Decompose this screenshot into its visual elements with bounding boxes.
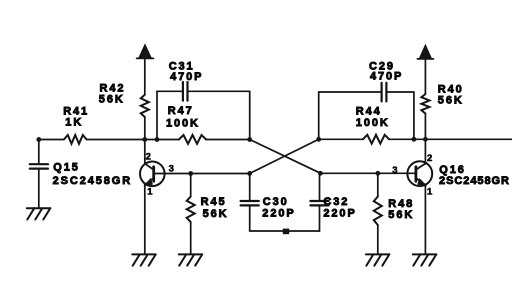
junction node B top left of cross (247, 137, 252, 142)
wire: R45 to ground (190, 222, 192, 254)
label R44 value 100K (356, 105, 390, 129)
junction node top right of cross (316, 137, 321, 142)
junction node: R40 branch at rail (423, 137, 428, 142)
wire: C31 loop top right segment (188, 90, 249, 92)
capacitor C29 (382, 83, 387, 102)
wire: Q15 emitter to ground (144, 185, 146, 254)
resistor R40 (421, 94, 429, 114)
ground (Q15 emitter) (132, 254, 156, 265)
resistor R41 (64, 135, 87, 144)
capacitor (input, left) (30, 164, 48, 168)
wire: R48 to ground (377, 225, 379, 254)
resistor R47 (179, 135, 206, 144)
junction node: rail left end (36, 137, 41, 142)
ground (R45) (179, 254, 203, 265)
label R41 value 1K (63, 106, 89, 129)
svg-text:2SC2458GR: 2SC2458GR (53, 175, 132, 187)
wire: C29 loop top left segment (319, 91, 381, 93)
wire: R40 bottom to top rail (424, 114, 426, 140)
svg-text:100K: 100K (356, 117, 390, 129)
label Q16 2SC2458GR (439, 164, 510, 187)
junction node: R48 tap (375, 171, 380, 176)
resistor R44 (363, 135, 389, 144)
power symbol B+ left (arrow) (137, 45, 154, 59)
wire: Q16 base rail from cross node (320, 172, 407, 174)
label R45 value 56K (201, 196, 229, 220)
svg-text:R40: R40 (438, 84, 464, 96)
svg-text:R44: R44 (356, 105, 382, 117)
wire: left input cap vertical from rail (38, 140, 40, 164)
resistor R48 (374, 197, 382, 226)
wire: C30 bottom vertical (249, 206, 251, 231)
resistor R42 (141, 95, 149, 117)
svg-text:C30: C30 (263, 196, 289, 208)
junction node: C29 loop right at rail (412, 137, 417, 142)
junction node: Q16 base rail at cross (318, 171, 323, 176)
wire: C29 loop top right segment (387, 91, 414, 93)
label R47 value 100K (166, 105, 200, 129)
wire: C29 loop right vertical down to rail (413, 92, 415, 139)
wire: C31 loop right vertical down to node B (249, 91, 251, 139)
svg-text:C32: C32 (323, 196, 349, 208)
svg-text:100K: 100K (166, 117, 200, 129)
svg-text:56K: 56K (388, 209, 414, 221)
svg-text:470P: 470P (170, 71, 203, 83)
svg-text:R45: R45 (201, 196, 227, 208)
svg-text:3: 3 (392, 165, 397, 176)
wire: C29 loop left vertical (318, 92, 320, 139)
svg-text:2SC2458GR: 2SC2458GR (439, 175, 510, 187)
capacitor C31 (183, 82, 188, 101)
svg-text:56K: 56K (203, 208, 229, 220)
ground (R48) (366, 254, 390, 265)
wire: right supply vertical from arrow to R40 (424, 59, 426, 94)
transistor Q16 (407, 139, 432, 186)
wire: left cap to ground (38, 170, 40, 208)
svg-text:56K: 56K (99, 93, 125, 105)
label R40 value 56K (438, 84, 464, 107)
wire: R42 bottom to top rail (144, 117, 146, 140)
wire: top rail left end to R41 (39, 139, 64, 141)
svg-text:220P: 220P (262, 208, 295, 220)
label Q15 2SC2458GR (53, 161, 132, 187)
junction node: Q15 base rail at cross (247, 171, 252, 176)
label C32 value 220P (323, 196, 356, 220)
label C31 value 470P (169, 60, 204, 83)
wire: top rail right of R40 node to edge (414, 138, 512, 140)
svg-text:1: 1 (427, 187, 433, 198)
wire: C32 branch vertical top (319, 173, 321, 200)
wire: R41 to node collector Q15 (87, 139, 158, 141)
wire: cross coupling diagonal right rail node to Q15 base rail (250, 139, 319, 173)
svg-text:1K: 1K (65, 117, 83, 129)
wire: C31 loop top left segment (157, 90, 182, 92)
wire: R45 branch vertical (190, 174, 192, 197)
wire: cross coupling diagonal node B to Q16 base rail (250, 140, 321, 174)
svg-text:1: 1 (147, 187, 153, 198)
label R42 value 56K (99, 83, 126, 106)
svg-text:220P: 220P (323, 208, 356, 220)
ground (Q16 emitter) (413, 254, 437, 265)
wire: Q15 base rail to cross node (165, 173, 250, 175)
resistor R45 (187, 197, 195, 223)
wire: C32 bottom vertical (319, 206, 321, 231)
wire: R47 to node B (206, 139, 250, 141)
label C30 value 220P (262, 196, 295, 220)
label R48 value 56K (388, 198, 414, 221)
junction node: loop left at rail (155, 137, 160, 142)
transistor Q15 (140, 140, 165, 187)
power symbol B+ right (arrow) (417, 45, 433, 59)
junction node: R45 tap (188, 171, 193, 176)
svg-text:2: 2 (427, 153, 432, 164)
wire: C31 loop left vertical (156, 91, 158, 139)
label C29 value 470P (369, 60, 403, 82)
ground (far left) (27, 208, 51, 219)
svg-text:470P: 470P (370, 71, 403, 83)
wire: bottom link C30 to C32 (250, 230, 320, 232)
wire: R44 to loop node (389, 138, 414, 140)
wire: right rail node to R44 (319, 138, 363, 140)
capacitor C32 (310, 201, 328, 205)
capacitor C30 (241, 201, 259, 205)
junction node: Q15 collector at rail (142, 137, 147, 142)
junction square on bottom link (283, 229, 289, 235)
wire: R48 branch vertical (377, 173, 379, 196)
svg-text:R47: R47 (168, 105, 194, 117)
svg-text:56K: 56K (438, 95, 464, 107)
wire: Q16 emitter to ground (424, 185, 426, 254)
wire: C30 branch vertical top (249, 174, 251, 201)
svg-text:2: 2 (146, 151, 151, 162)
svg-text:Q15: Q15 (53, 161, 80, 173)
wire: top rail node to R47 (157, 139, 179, 141)
wire: left supply vertical from arrow to R42 (144, 58, 146, 94)
